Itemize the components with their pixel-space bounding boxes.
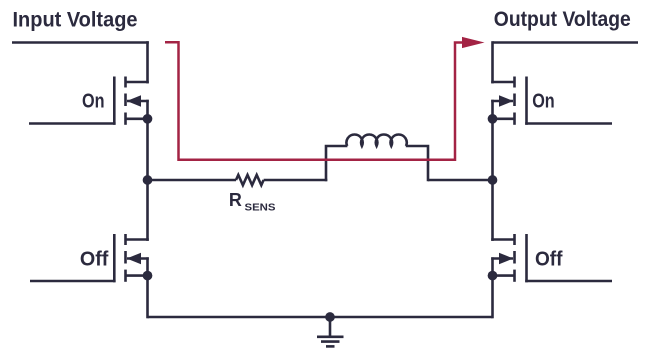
svg-text:Input Voltage: Input Voltage	[13, 9, 138, 32]
svg-text:Off: Off	[80, 249, 109, 271]
wire right rail mid node to Q4 drain	[491, 180, 494, 241]
wire inductor branch (raised section)	[326, 146, 347, 181]
wire left rail mid node to Q3 drain	[146, 180, 149, 241]
node Q3 source junction	[143, 271, 153, 281]
red current arrowhead	[462, 37, 485, 48]
inductor L humps	[346, 134, 406, 146]
transistor Q2 top-right (On)	[491, 77, 612, 125]
transistor Q4 bottom-right (Off)	[491, 234, 612, 282]
node right mid rail junction	[488, 175, 498, 185]
svg-text:R: R	[229, 190, 242, 210]
svg-text:Output Voltage: Output Voltage	[494, 8, 631, 31]
wire mid rail left of resistor	[148, 179, 237, 182]
wire right rail Q2 source to mid node	[491, 100, 494, 181]
node Q2 source junction	[488, 114, 498, 124]
transistor Q3 bottom-left (Off)	[30, 234, 149, 282]
wire output top rail	[493, 41, 639, 44]
node ground junction	[325, 312, 335, 322]
svg-text:On: On	[82, 90, 105, 112]
wire left rail Q3 source to bottom rail	[146, 257, 149, 318]
wire right rail Q4 source to bottom rail	[491, 257, 494, 318]
wire current path (red)	[165, 42, 463, 160]
node Q1 source junction	[143, 114, 153, 124]
node left mid rail junction	[143, 175, 153, 185]
ground	[317, 317, 344, 346]
svg-text:SENS: SENS	[245, 201, 276, 213]
wire bottom rail	[148, 316, 493, 319]
node Q4 source junction	[488, 271, 498, 281]
transistor Q1 top-left (On)	[29, 77, 149, 125]
wire left rail Q1 source to mid node	[146, 100, 149, 181]
wire inductor branch right (raised section)	[406, 146, 428, 181]
wire mid rail resistor to inductor branch	[264, 179, 328, 182]
svg-text:On: On	[532, 90, 555, 112]
wire mid rail inductor branch to right node	[428, 179, 493, 182]
resistor RSENS zigzag	[236, 175, 264, 185]
wire left rail upper (to Q1 drain)	[146, 41, 149, 83]
svg-text:Off: Off	[535, 249, 563, 271]
wire input top rail	[12, 41, 149, 44]
wire right rail upper (to Q2 drain)	[491, 41, 494, 83]
